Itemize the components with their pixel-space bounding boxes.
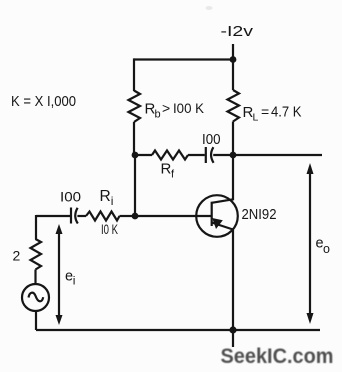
wire: C2 to Ri <box>77 215 86 217</box>
svg-text:>: > <box>162 100 170 116</box>
label 100 (C1) <box>202 132 221 148</box>
label K = X 1,000 <box>11 93 76 110</box>
wire: bottom rail <box>36 329 320 331</box>
wire: RL top lead <box>232 60 234 91</box>
supply label -12v <box>221 23 254 40</box>
svg-text:b: b <box>155 109 161 121</box>
resistor Ri <box>86 212 120 221</box>
watermark SeekIC.com <box>221 344 334 368</box>
svg-text:I00 K: I00 K <box>173 100 205 116</box>
svg-text:i: i <box>111 194 114 208</box>
label 100 (C2) <box>60 189 81 205</box>
junction: emitter / bottom rail <box>229 326 236 333</box>
svg-text:I00: I00 <box>60 189 81 205</box>
wire: output line <box>233 154 322 156</box>
svg-text:K = X I,000: K = X I,000 <box>11 93 76 110</box>
capacitor C2 (100) <box>71 208 78 224</box>
wire: stub below rail <box>232 330 234 347</box>
resistor Rs (2) <box>31 239 42 270</box>
wire: top rail <box>134 58 233 60</box>
junction: top rail / RL node <box>230 56 237 63</box>
capacitor C1 (100) <box>206 147 214 163</box>
wire: collector vertical <box>232 155 234 200</box>
resistor Rb <box>129 91 141 123</box>
svg-text:2NI92: 2NI92 <box>242 206 277 223</box>
svg-text:SeekIC.com: SeekIC.com <box>221 344 334 368</box>
svg-text:=: = <box>261 104 269 120</box>
svg-text:R: R <box>161 161 172 178</box>
measurement arrow e_o <box>307 163 314 324</box>
resistor Rf <box>152 151 188 160</box>
wire: input left corner down <box>35 215 37 240</box>
svg-text:I0 K: I0 K <box>101 221 118 237</box>
wire: emitter vertical <box>232 229 234 330</box>
wire: supply stub <box>232 44 234 60</box>
svg-text:4.7 K: 4.7 K <box>271 105 302 121</box>
svg-text:L: L <box>253 112 259 124</box>
AC source <box>22 284 49 311</box>
junction: feedback-left node <box>132 152 139 159</box>
resistor RL <box>228 90 240 122</box>
wire: Rf left lead <box>135 154 152 156</box>
wire: base lead <box>135 215 212 217</box>
label e_o <box>316 236 331 257</box>
svg-text:-I2v: -I2v <box>221 23 254 40</box>
svg-text:o: o <box>323 242 330 256</box>
label 2 <box>13 248 21 264</box>
wire: Rb top lead <box>133 58 135 91</box>
transistor Q1 2N192 <box>196 195 238 237</box>
label 10K <box>101 221 118 237</box>
label 2N192 <box>242 206 277 223</box>
junction: collector node <box>230 152 237 159</box>
wire: RL bottom lead <box>232 122 234 156</box>
label Ri <box>100 188 114 208</box>
svg-text:R: R <box>100 188 111 205</box>
wire: Ri to base node <box>120 215 136 217</box>
wire: Rf to C1 <box>188 154 205 156</box>
svg-text:2: 2 <box>13 248 21 264</box>
junction: base node <box>132 213 139 220</box>
label Rb > 100 K <box>145 100 205 121</box>
svg-text:f: f <box>171 169 175 181</box>
label e_i <box>65 269 75 288</box>
svg-text:I00: I00 <box>202 132 221 148</box>
wire: Rs to AC source <box>34 270 36 286</box>
label Rf <box>161 161 176 181</box>
measurement arrow e_i <box>56 224 63 325</box>
wire: input corner to C2 <box>36 215 70 217</box>
wire: Rb bottom lead <box>133 122 135 155</box>
smudge top <box>206 6 213 10</box>
wire: C1 to collector node <box>213 154 233 156</box>
wire: left vertical (Rb bottom to base node) <box>134 155 136 216</box>
label RL = 4.7 K <box>243 104 302 124</box>
svg-text:i: i <box>73 274 76 288</box>
wire: source to bottom rail <box>35 310 37 330</box>
